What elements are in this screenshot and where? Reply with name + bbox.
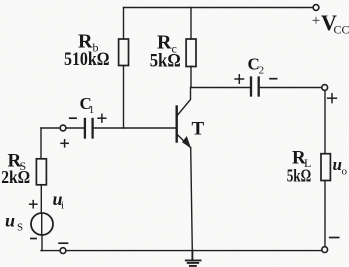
- label output plus: [328, 94, 337, 103]
- terminal +Vcc: [313, 5, 319, 11]
- label T: [192, 119, 205, 140]
- paper texture: [0, 0, 1, 1]
- label C1 plus: [98, 114, 106, 122]
- label ui: [53, 189, 65, 212]
- transistor T collector: [177, 88, 190, 116]
- wire bottom rail: [41, 250, 322, 252]
- label C1 minus: [70, 117, 76, 119]
- wire emitter down: [191, 148, 193, 251]
- wire input top / base line left: [41, 127, 60, 129]
- label Rc value: [150, 32, 181, 72]
- label uS plus: [30, 201, 37, 208]
- resistor RS: [36, 159, 46, 185]
- terminal output bottom: [322, 247, 328, 253]
- label uo: [333, 155, 348, 178]
- wire Rb bottom: [123, 66, 125, 129]
- label Rb value: [64, 31, 110, 70]
- wire RS to source: [40, 185, 42, 213]
- wire C2 right: [260, 87, 322, 89]
- transistor T emitter arrow: [183, 137, 191, 148]
- wire through source: [41, 213, 43, 235]
- resistor Rb: [119, 39, 129, 66]
- label uS minus: [31, 238, 36, 240]
- wire C2 left: [191, 87, 250, 89]
- terminal output top: [322, 85, 328, 91]
- label C2 minus: [270, 78, 277, 80]
- wire left column top: [40, 128, 42, 159]
- transistor T emitter: [177, 135, 190, 148]
- label output minus: [330, 237, 339, 239]
- wire source to bottom rail: [41, 235, 43, 251]
- resistor Rc: [186, 39, 196, 67]
- resistor RL: [321, 154, 330, 181]
- wire C1 to base: [94, 127, 176, 129]
- wire to C1: [66, 127, 84, 129]
- node +Vcc label: [312, 10, 349, 37]
- wire RL top: [324, 91, 326, 154]
- label C1: [80, 94, 95, 116]
- wire Rc top: [190, 8, 192, 40]
- terminal input top: [60, 125, 66, 131]
- capacitor C1: [85, 119, 93, 138]
- wire top rail: [124, 7, 314, 9]
- label C2: [248, 55, 265, 77]
- label RS value: [1, 151, 30, 188]
- label input plus: [61, 140, 68, 147]
- wire Rc bottom: [190, 67, 192, 88]
- label C2 plus: [235, 75, 243, 83]
- ground: [186, 251, 201, 266]
- capacitor C2: [251, 78, 259, 96]
- source uS: [31, 213, 53, 235]
- label input bottom minus: [59, 242, 67, 244]
- transistor T base bar: [175, 107, 177, 142]
- label uS: [5, 211, 23, 234]
- wire RL bottom: [324, 181, 326, 247]
- wire Rb top: [123, 8, 125, 40]
- label RL value: [287, 148, 312, 186]
- terminal input bottom: [60, 248, 66, 254]
